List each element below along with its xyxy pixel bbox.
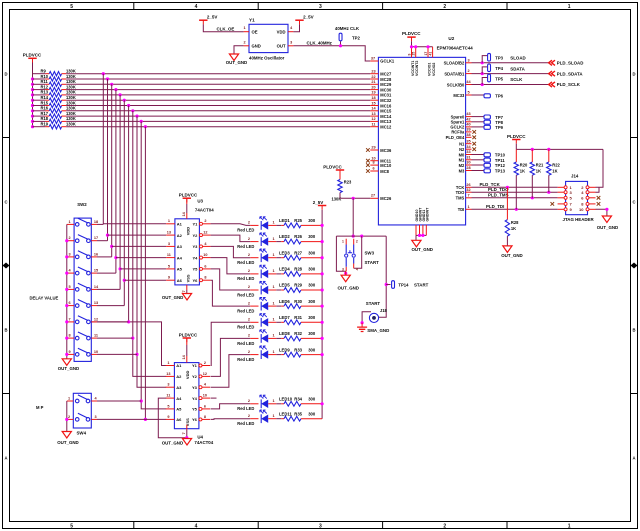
wire LED2 to R26 <box>276 241 284 243</box>
U2 pin 31 M1 stub <box>459 155 472 162</box>
U2 pin 35 N1 stub <box>459 139 476 146</box>
U2 GND10 stub <box>415 210 419 236</box>
wire net SLOAD <box>472 62 551 64</box>
ground OUT_GND (SW4) <box>57 432 78 446</box>
svg-text:33: 33 <box>466 150 470 154</box>
wire CLK_40MHz from Y1 OUT to U2 GCLK1 <box>293 46 370 61</box>
svg-text:GNDINT: GNDINT <box>425 207 429 222</box>
SW2 pin 16 stub <box>91 252 98 257</box>
svg-text:PLDVCC: PLDVCC <box>507 134 526 139</box>
wire bus column 9 down to U4 A3 <box>137 116 166 387</box>
svg-text:6: 6 <box>204 264 206 268</box>
wire bus column 5 down to SW2 row 5 <box>119 95 121 290</box>
junction bus column 8 <box>131 109 134 112</box>
IC U3 74ACT04 hex inverter body <box>175 198 214 285</box>
svg-text:R21: R21 <box>536 163 544 168</box>
svg-text:SW2: SW2 <box>77 202 87 207</box>
svg-text:300: 300 <box>308 411 316 416</box>
J14 pin 8 stub <box>589 203 596 205</box>
wire net SCLK <box>472 84 551 86</box>
wire R17 to U2 MC14 <box>62 115 371 117</box>
junction LED rail row 9 <box>321 353 324 356</box>
svg-text:LED1: LED1 <box>279 218 290 223</box>
wire TP3 stem <box>482 56 487 63</box>
wire LED8 to R32 <box>276 337 284 339</box>
svg-text:Y4: Y4 <box>192 396 198 401</box>
wire PLDVCC to R9 <box>33 73 50 75</box>
junction PLDVCC rail / R11 <box>31 83 34 86</box>
svg-text:2: 2 <box>68 236 70 240</box>
svg-text:1: 1 <box>273 334 275 338</box>
wire R20 to net <box>515 175 517 209</box>
svg-text:TMS: TMS <box>456 196 465 201</box>
junction column 6 / U3 A6 branch <box>123 279 126 282</box>
svg-text:17: 17 <box>424 52 428 56</box>
resistor R12 130K <box>41 84 76 91</box>
wire net PLD_TDO (TDO to JTAG pin 3) <box>472 191 558 193</box>
wire R9 to U2 MC27 <box>62 73 371 75</box>
U4 pin 11 input A4 stub <box>166 394 175 399</box>
U3 pin 6 output Y5 stub <box>203 264 211 269</box>
LED LED4 (Red LED) <box>237 265 290 281</box>
SW4 pin 4 stub <box>91 396 97 401</box>
junction SW2 ground rail row 3 <box>65 255 68 258</box>
wire U3 Y5 to LED5 <box>211 269 251 290</box>
U2 pin 44 SCLK/B0 stub <box>447 80 472 87</box>
svg-text:7: 7 <box>467 193 469 197</box>
svg-text:PLD_TDO: PLD_TDO <box>488 187 509 192</box>
svg-text:LED9: LED9 <box>279 347 290 352</box>
wire branch to U3 A3 <box>112 245 167 247</box>
wire SW2 pin 17 to bus column 2 <box>97 240 108 242</box>
wire PLDVCC to R18 <box>33 120 50 122</box>
svg-text:300: 300 <box>308 315 316 320</box>
svg-text:OUT_GND: OUT_GND <box>597 225 618 230</box>
svg-text:12: 12 <box>94 317 98 321</box>
svg-text:TP5: TP5 <box>495 76 503 81</box>
junction bus column 6 <box>123 99 126 102</box>
svg-text:R15: R15 <box>41 100 49 105</box>
svg-text:U2: U2 <box>448 36 454 41</box>
junction LED rail row 5 <box>321 288 324 291</box>
svg-text:MC10: MC10 <box>380 163 392 168</box>
svg-text:Red LED: Red LED <box>237 244 254 249</box>
svg-text:2_5V: 2_5V <box>303 14 314 19</box>
resistor R29 300 <box>284 283 316 293</box>
junction U2 GND bar a <box>418 234 421 237</box>
wire PLDVCC to R19 <box>33 126 50 128</box>
resistor R26 300 <box>284 234 316 244</box>
svg-text:41: 41 <box>428 52 432 56</box>
svg-text:3: 3 <box>167 383 169 387</box>
SW2 pin 14 stub <box>91 285 99 290</box>
wire M0 to TP10 <box>472 154 485 156</box>
junction column 11 / SW4 row 2 <box>144 418 147 421</box>
svg-text:26: 26 <box>466 183 470 187</box>
off-page connector PLD_SCLK <box>549 82 581 87</box>
svg-text:10: 10 <box>203 253 207 257</box>
svg-text:A1: A1 <box>176 363 182 368</box>
svg-text:R9: R9 <box>41 69 47 74</box>
svg-text:R30: R30 <box>294 299 302 304</box>
svg-text:5: 5 <box>167 404 169 408</box>
svg-text:3: 3 <box>467 58 469 62</box>
svg-text:2: 2 <box>248 414 250 418</box>
svg-text:J14: J14 <box>571 174 579 179</box>
resistor R10 130K <box>41 74 76 81</box>
junction SW3 right side <box>360 235 363 238</box>
wire PLDVCC to R16 <box>33 110 50 112</box>
svg-text:11: 11 <box>371 123 375 127</box>
svg-text:4: 4 <box>356 268 358 272</box>
SW2 pin 6 stub <box>67 301 74 306</box>
wire R26 to 2_5V rail <box>301 241 322 243</box>
svg-text:LED6: LED6 <box>279 299 290 304</box>
svg-text:A: A <box>632 456 635 461</box>
svg-text:SLOAD/B2: SLOAD/B2 <box>444 61 465 66</box>
svg-text:U3: U3 <box>197 198 203 203</box>
svg-text:17: 17 <box>94 236 98 240</box>
junction LED rail row 7 <box>321 321 324 324</box>
svg-text:OUT_GND: OUT_GND <box>226 60 247 65</box>
svg-text:3: 3 <box>168 242 170 246</box>
wire SW2 ground rail <box>66 224 68 358</box>
svg-text:7: 7 <box>182 432 186 434</box>
svg-text:21: 21 <box>371 80 375 84</box>
svg-text:Red LED: Red LED <box>237 228 254 233</box>
wire branch to U3 A2 <box>108 234 167 236</box>
svg-text:4: 4 <box>195 4 198 10</box>
wire Spare0 to TP7 <box>472 116 485 118</box>
svg-text:13: 13 <box>94 301 98 305</box>
wire U4 Y3 to LED9 <box>211 355 251 388</box>
U2 pin 5 MC33 stub <box>453 91 471 98</box>
SW2 pin 12 stub <box>91 317 98 322</box>
svg-text:A2: A2 <box>176 374 182 379</box>
U2 pin 27 MC26 stub <box>370 194 392 201</box>
svg-text:R25: R25 <box>294 218 302 223</box>
svg-text:12: 12 <box>203 231 207 235</box>
svg-text:MC14: MC14 <box>380 114 392 119</box>
label DELAY VALUE <box>30 296 59 301</box>
U2 pin 28 M3 stub <box>459 166 472 173</box>
SW2 pin 15 stub <box>91 269 98 274</box>
SW2 pin 17 stub <box>91 236 98 241</box>
wire PLDVCC to R11 <box>33 83 50 85</box>
wire bus column 2 down to SW2 row 2 <box>107 79 109 241</box>
wire bus column 1 down to SW2 row 1 <box>102 74 104 225</box>
ground OUT_GND (Y1) <box>226 54 247 65</box>
test point TP3 <box>488 53 504 61</box>
svg-text:1K: 1K <box>536 169 541 174</box>
svg-text:OUT_GND: OUT_GND <box>412 247 433 252</box>
LED LED1 (Red LED) <box>237 217 290 233</box>
wire U4 Y6 to LED11 <box>211 418 251 421</box>
svg-text:VCCIO1: VCCIO1 <box>427 63 431 76</box>
svg-text:R27: R27 <box>294 250 302 255</box>
wire bus column 6 down to SW2 row 6 <box>123 100 125 305</box>
svg-text:300: 300 <box>308 218 316 223</box>
net label PLD_TDI <box>486 204 504 209</box>
wire R21 to net <box>531 175 533 198</box>
svg-text:2: 2 <box>248 399 250 403</box>
U2 pin 17 VCCIO1 stub <box>424 47 432 76</box>
U2 pin 3 SLOAD/B2 stub <box>444 58 472 65</box>
svg-text:Y2: Y2 <box>192 374 198 379</box>
svg-text:300: 300 <box>308 283 316 288</box>
U2 pin 29 MC36 no-connect <box>366 146 392 153</box>
resistor R11 130K <box>41 79 76 86</box>
junction bus column 2 <box>106 77 109 80</box>
svg-text:MC31: MC31 <box>380 93 392 98</box>
wire J14 pin 10 to ground <box>596 209 607 216</box>
junction column 8 / SW2 row 8 <box>131 337 134 340</box>
LED LED7 (Red LED) <box>237 314 290 330</box>
svg-text:5: 5 <box>168 264 170 268</box>
junction PLDVCC rail / R10 <box>31 77 34 80</box>
J14 pin 3 stub <box>558 191 565 193</box>
wire R33 to 2_5V rail <box>301 354 322 356</box>
svg-text:MC30: MC30 <box>380 87 392 92</box>
power 2_5V (LED rail) <box>313 200 327 210</box>
junction LED rail row 10 <box>321 402 324 405</box>
svg-text:D: D <box>632 72 635 77</box>
svg-text:LED11: LED11 <box>279 411 292 416</box>
svg-text:SLOAD: SLOAD <box>510 56 525 61</box>
wire PLDVCC rail to JTAG <box>516 144 603 150</box>
svg-text:2_5V: 2_5V <box>313 200 324 205</box>
svg-text:MC27: MC27 <box>380 72 392 77</box>
junction PLDVCC rail / R15 <box>31 104 34 107</box>
svg-text:2: 2 <box>204 361 206 365</box>
junction PLDVCC rail / R17 <box>31 115 34 118</box>
junction bus column 3 <box>110 83 113 86</box>
svg-text:9: 9 <box>168 276 170 280</box>
net label START (J18) <box>366 301 381 306</box>
svg-text:MC29: MC29 <box>380 82 392 87</box>
svg-text:1: 1 <box>273 221 275 225</box>
svg-text:8: 8 <box>204 415 206 419</box>
svg-text:N1: N1 <box>459 142 465 147</box>
U2 pin 43 Spare0 stub <box>451 112 472 119</box>
wire R10 to U2 MC28 <box>62 78 371 80</box>
svg-text:13: 13 <box>166 372 170 376</box>
wire LED1 to R25 <box>276 224 284 226</box>
wire SW2 pin 14 to bus column 5 <box>97 288 120 290</box>
wire LED4 to R28 <box>276 273 284 275</box>
LED LED10 (Red LED) <box>237 395 292 411</box>
junction bus column 11 <box>144 125 147 128</box>
switch SW4 (2-position DIP, M P) <box>73 393 91 435</box>
svg-text:Y5: Y5 <box>192 267 198 272</box>
net label 40MHz CLK <box>335 26 360 31</box>
ground OUT_GND (J14) <box>597 216 618 230</box>
junction J14 pin 10 / ground <box>605 208 608 211</box>
junction PLDVCC rail / R18 <box>31 120 34 123</box>
wire U3 Y4 to LED4 <box>211 258 251 274</box>
svg-text:12: 12 <box>203 372 207 376</box>
label OUT_GND (U3) <box>162 295 183 300</box>
svg-text:1K: 1K <box>511 226 516 231</box>
U3 pin 1 input A1 stub <box>166 219 175 224</box>
SW2 pin 7 stub <box>67 317 74 322</box>
svg-text:30: 30 <box>466 161 470 165</box>
svg-text:18: 18 <box>371 96 375 100</box>
svg-text:2: 2 <box>248 221 250 225</box>
junction U2 VCC rail c <box>426 45 429 48</box>
svg-text:300: 300 <box>308 234 316 239</box>
junction PLDVCC rail / R12 <box>31 88 34 91</box>
svg-text:TP3: TP3 <box>495 56 503 61</box>
U2 pin 13 MC14 stub <box>370 112 392 119</box>
svg-text:SW4: SW4 <box>77 431 87 436</box>
junction PLDVCC rail / R14 <box>31 99 34 102</box>
wire SW2 pin 18 to bus column 1 <box>97 223 103 225</box>
svg-text:39: 39 <box>466 128 470 132</box>
U2 pin 2 SDATA/B1 stub <box>444 69 471 76</box>
svg-text:130K: 130K <box>66 79 76 84</box>
svg-text:130K: 130K <box>66 69 76 74</box>
off-page connector PLD_SLOAD <box>549 60 584 65</box>
wire SW2 pin 12 to bus column 7 <box>97 321 129 323</box>
resistor R22 1K <box>547 149 561 175</box>
U3 pin 3 input A3 stub <box>166 242 175 247</box>
svg-text:22: 22 <box>371 75 375 79</box>
junction column 9 / SW2 row 9 <box>135 353 138 356</box>
junction bus column 1 <box>102 72 105 75</box>
wire J18 ground stem <box>361 323 363 327</box>
SW2 pin 8 stub <box>67 334 74 339</box>
svg-text:2: 2 <box>248 301 250 305</box>
svg-text:B: B <box>632 328 635 333</box>
wire PLDVCC to J14 pin 2 <box>596 149 604 187</box>
wire bus column 3 down to SW2 row 3 <box>111 84 113 257</box>
U2 GNDINT stub <box>419 207 423 235</box>
svg-text:TP10: TP10 <box>495 153 506 158</box>
svg-text:C: C <box>632 200 635 205</box>
svg-text:Red LED: Red LED <box>237 406 254 411</box>
junction SW2 ground rail row 2 <box>65 239 68 242</box>
junction column 4 / U3 A4 branch <box>114 256 117 259</box>
ground OUT_GND (SW2) <box>58 359 79 371</box>
net label PLD_TMS <box>488 193 509 198</box>
resistor R16 130K <box>41 106 76 113</box>
resistor R35 300 <box>284 411 316 421</box>
svg-text:OUT_GND: OUT_GND <box>162 295 183 300</box>
Y1 pin 2 GND stub <box>243 40 249 46</box>
svg-text:PLD_SCLK: PLD_SCLK <box>557 82 581 87</box>
test point TP2 <box>339 33 360 41</box>
svg-text:9: 9 <box>167 415 169 419</box>
svg-text:R17: R17 <box>41 111 49 116</box>
resistor R14 130K <box>41 95 76 102</box>
wire U4 Y5 to LED10 <box>211 404 251 409</box>
svg-text:1: 1 <box>342 239 344 243</box>
svg-text:A4: A4 <box>176 396 182 401</box>
U4 pin 3 input A3 stub <box>166 383 175 388</box>
J14 pin 10 stub <box>589 208 596 210</box>
wire SW4 pin 3 to U4 A6 <box>97 418 166 420</box>
svg-text:Y3: Y3 <box>192 385 198 390</box>
svg-text:VCCIO2: VCCIO2 <box>432 63 436 76</box>
svg-text:Y1: Y1 <box>192 363 198 368</box>
svg-text:13: 13 <box>371 112 375 116</box>
wire R13 to U2 MC31 <box>62 94 371 96</box>
svg-text:R12: R12 <box>41 84 49 89</box>
wire R11 to U2 MC29 <box>62 83 371 85</box>
svg-text:M P: M P <box>36 405 44 410</box>
junction LED rail row 8 <box>321 337 324 340</box>
IC U4 74ACT04 hex inverter body <box>174 363 213 445</box>
wire SW2 row 7 over to U4 A1 <box>91 322 166 366</box>
svg-text:7: 7 <box>182 290 186 292</box>
wire SW3 left pins loop <box>336 236 346 271</box>
U4 pin 8 output Y6 stub <box>202 415 210 420</box>
svg-text:2: 2 <box>248 334 250 338</box>
svg-text:PLDVCC: PLDVCC <box>179 193 198 198</box>
svg-text:1: 1 <box>243 26 245 30</box>
svg-text:Y6: Y6 <box>192 278 198 283</box>
wire R27 to 2_5V rail <box>301 257 322 259</box>
resistor R25 300 <box>284 218 316 228</box>
svg-text:VDD: VDD <box>277 30 286 35</box>
net label START (TP14) <box>414 282 429 287</box>
svg-text:Y3: Y3 <box>192 244 198 249</box>
U2 pin 34 N2 stub <box>459 145 476 152</box>
junction SW2 ground rail row 7 <box>65 320 68 323</box>
svg-text:A3: A3 <box>177 244 183 249</box>
svg-text:35: 35 <box>466 139 470 143</box>
svg-text:START: START <box>365 260 380 265</box>
wire LED6 to R30 <box>276 305 284 307</box>
junction U4 VSS / A4 ground tie <box>185 436 188 439</box>
wire LED5 to R29 <box>276 289 284 291</box>
wire R14 to U2 MC32 <box>62 99 371 101</box>
resistor R33 300 <box>284 347 316 357</box>
wire net PLD_TDI (TDI to JTAG pin 9) <box>472 208 558 210</box>
power 2_5V (right of Y1) <box>295 14 313 24</box>
svg-text:Red LED: Red LED <box>237 325 254 330</box>
svg-text:Y6: Y6 <box>192 417 198 422</box>
svg-text:JTAG HEADER: JTAG HEADER <box>563 217 595 222</box>
junction LED rail row 1 <box>321 224 324 227</box>
wire TP14 stem <box>386 284 390 286</box>
svg-text:MC8: MC8 <box>380 169 389 174</box>
svg-text:300: 300 <box>308 267 316 272</box>
junction PLD_TDO / R22 <box>547 191 550 194</box>
J14 pin 1 stub <box>558 186 565 188</box>
wire R30 to 2_5V rail <box>301 305 322 307</box>
LED LED11 (Red LED) <box>237 410 292 426</box>
svg-text:A1: A1 <box>177 222 183 227</box>
svg-text:MC32: MC32 <box>380 98 392 103</box>
svg-text:R20: R20 <box>520 163 528 168</box>
U2 pin 18 MC32 stub <box>370 96 392 103</box>
svg-text:10: 10 <box>579 207 584 212</box>
svg-text:TP12: TP12 <box>495 163 506 168</box>
svg-text:R35: R35 <box>294 411 302 416</box>
svg-text:R28: R28 <box>511 220 519 225</box>
U2 pin 9 VCCINT1 stub <box>407 47 415 76</box>
svg-text:Y1: Y1 <box>249 18 255 23</box>
junction CLK_40MHz / TP2 <box>339 44 342 47</box>
wire U3 Y2 to LED2 <box>211 235 251 242</box>
svg-text:VSS: VSS <box>185 274 190 282</box>
resistor R9 130K <box>41 69 76 76</box>
svg-text:M2: M2 <box>459 163 465 168</box>
svg-text:DELAY VALUE: DELAY VALUE <box>30 296 59 301</box>
junction PLD_TDI / R20 <box>515 208 518 211</box>
